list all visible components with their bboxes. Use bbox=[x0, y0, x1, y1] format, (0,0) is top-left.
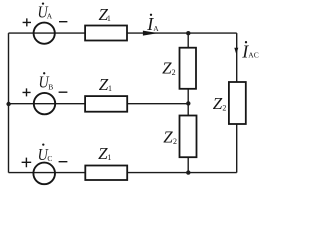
svg-text:A: A bbox=[47, 12, 53, 21]
voltage source UC bbox=[22, 143, 68, 184]
wire left bus bbox=[8, 33, 10, 173]
current arrow IAC bbox=[234, 41, 258, 61]
impedance Z2 lower middle bbox=[163, 116, 196, 158]
svg-text:C: C bbox=[47, 154, 52, 163]
wire middle column bottom bbox=[187, 157, 189, 172]
svg-text:AC: AC bbox=[248, 51, 258, 60]
wire row B right bbox=[127, 103, 188, 105]
svg-text:Z: Z bbox=[162, 59, 172, 78]
impedance Z1 row C bbox=[85, 144, 127, 180]
svg-text:2: 2 bbox=[222, 103, 226, 112]
wire right bus lower bbox=[236, 124, 238, 173]
impedance Z2 right bbox=[213, 82, 246, 124]
voltage source UB bbox=[23, 72, 68, 114]
impedance Z1 row B bbox=[85, 75, 127, 112]
wire middle column top bbox=[187, 33, 189, 48]
wire row C left bbox=[9, 172, 86, 174]
wire right bus upper bbox=[236, 33, 238, 82]
svg-text:1: 1 bbox=[107, 153, 111, 162]
current arrow IA bbox=[143, 14, 159, 36]
wire row B left bbox=[9, 103, 86, 105]
svg-text:2: 2 bbox=[172, 68, 176, 77]
voltage source UA bbox=[23, 2, 68, 43]
svg-text:2: 2 bbox=[173, 137, 177, 146]
wire middle column mid bbox=[187, 89, 189, 116]
impedance Z2 upper middle bbox=[162, 48, 196, 89]
impedance Z1 row A bbox=[85, 5, 127, 40]
svg-text:A: A bbox=[153, 24, 159, 33]
wire row A left bbox=[9, 32, 86, 34]
node junction row C / middle column bbox=[186, 170, 190, 174]
wire row C right bbox=[127, 172, 237, 174]
svg-text:Z: Z bbox=[213, 94, 223, 113]
node junction row B / left bus bbox=[6, 102, 10, 106]
node junction row B / middle column bbox=[186, 101, 190, 105]
svg-text:Z: Z bbox=[163, 127, 173, 146]
svg-text:B: B bbox=[48, 83, 53, 92]
wire row A right bbox=[127, 32, 237, 34]
svg-text:1: 1 bbox=[107, 14, 111, 23]
node junction row A / middle column bbox=[186, 31, 190, 35]
svg-text:1: 1 bbox=[108, 84, 112, 93]
